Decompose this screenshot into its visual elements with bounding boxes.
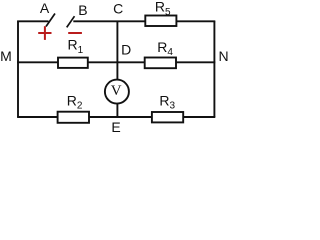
terminal B (open lead slash) [67,16,75,27]
wire: top segment from terminal B through node C to R5 and right corner [73,20,215,22]
wire: middle horizontal M-N through R1, D, R4 [17,61,215,63]
resistor R3 [152,112,183,122]
svg-text:B: B [78,2,87,18]
wire: left vertical M branch [17,21,19,117]
svg-text:D: D [121,41,131,57]
terminal A (open lead slash) [46,14,55,27]
voltmeter V (meter circle) [105,80,129,104]
resistor R1 [58,58,88,68]
battery polarity - mark [68,32,82,34]
wire: top segment from left corner to terminal A [17,20,48,22]
svg-text:N: N [219,48,229,64]
wire: bottom horizontal through R2, E, R3 [17,116,215,118]
svg-text:E: E [111,119,120,135]
svg-text:A: A [40,0,50,16]
svg-text:M: M [0,48,12,64]
resistor R5 [145,16,176,27]
svg-text:C: C [113,1,123,17]
battery polarity + mark [38,26,51,40]
svg-text:V: V [111,83,122,99]
wire: center vertical C-D-voltmeter-E [116,21,118,117]
resistor R4 [145,58,176,69]
wire: right vertical N branch [213,21,215,117]
resistor R2 [58,112,89,123]
